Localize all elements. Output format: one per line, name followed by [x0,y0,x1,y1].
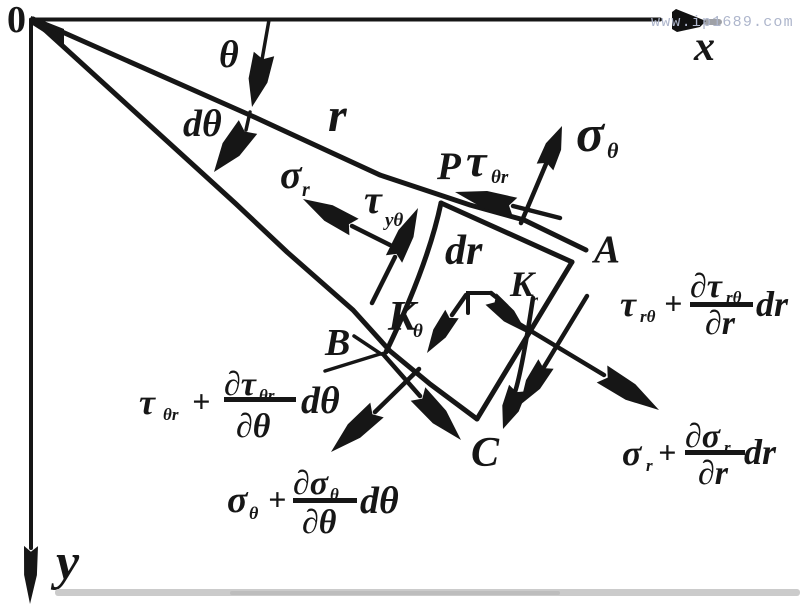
svg-text:σ: σ [227,479,249,521]
svg-text:∂r: ∂r [698,455,729,492]
svg-text:θ: θ [249,503,259,523]
svg-text:dr: dr [744,432,777,472]
svg-text:+: + [192,383,210,419]
formula tau_rtheta + dtau_rtheta/dr dr [620,268,789,342]
svg-text:B: B [324,322,350,364]
formula tau_theta-r + dtau_theta-r/dtheta dtheta [139,366,340,445]
svg-text:τ: τ [466,135,488,186]
arrow inner near C (down) [515,298,533,392]
arrow tau_theta-r+d (along BC, down-right) [383,354,420,396]
arrow K_r [491,293,496,297]
svg-text:θr: θr [491,167,509,188]
svg-text:θr: θr [259,386,275,405]
radial line OA (theta) [33,19,586,250]
svg-text:rθ: rθ [640,307,656,326]
svg-text:+: + [268,481,286,517]
svg-text:r: r [328,89,348,142]
bottom scan stripe [55,589,800,596]
leader from tau label to corner B [325,354,380,371]
svg-text:σ: σ [576,106,606,163]
element edge PB (inner arc) [386,203,441,352]
svg-text:+: + [658,434,676,470]
svg-text:dθ: dθ [360,480,399,522]
svg-text:θ: θ [219,34,239,76]
arrow sigma_r (inner face) [352,226,390,245]
svg-text:θ: θ [607,138,619,163]
svg-text:∂r: ∂r [705,305,736,342]
arrow tau_ytheta (inner face shear) [372,257,395,303]
origin ink wedge [31,16,64,45]
y-axis arrowhead [24,546,38,604]
x-axis [31,18,660,22]
arrow tau_theta-r (face PA shear) [513,206,560,218]
svg-text:x: x [693,24,715,70]
dtheta arc arrow [246,112,250,130]
svg-text:∂θ: ∂θ [236,408,271,445]
svg-text:τ: τ [620,284,637,324]
svg-text:σ: σ [280,152,303,197]
element edge AC (outer arc) [477,262,572,419]
theta arc arrow [257,20,269,88]
svg-text:dθ: dθ [301,380,340,422]
svg-text:dr: dr [445,228,483,274]
arrow sigma_r+d (outer face, down-right) [506,316,604,375]
svg-text:dθ: dθ [183,103,222,145]
svg-text:∂τ: ∂τ [690,268,723,305]
svg-text:θr: θr [163,405,179,424]
svg-text:τ: τ [364,177,383,222]
arrow K_theta [452,295,466,315]
svg-text:C: C [471,430,500,476]
element edge PA (top) [441,203,572,262]
body force bracket [468,293,491,313]
svg-text:∂θ: ∂θ [302,504,337,541]
svg-text:A: A [591,228,620,271]
x-axis arrowhead [672,9,706,32]
arrow sigma_theta+d (face BC, down-left) [375,369,419,412]
formula sigma_theta + dsigma_theta/dtheta dtheta [227,465,399,541]
svg-text:τ: τ [139,382,156,422]
svg-text:r: r [302,179,310,201]
svg-text:0: 0 [7,0,26,41]
radial line OBC (theta+dtheta) [33,19,477,419]
arrow sigma_theta (face PA normal) [521,164,546,223]
svg-text:∂σ: ∂σ [293,465,330,502]
svg-text:dr: dr [756,284,789,324]
svg-text:yθ: yθ [383,210,403,231]
svg-text:σ: σ [622,433,643,473]
svg-text:+: + [664,285,682,321]
svg-text:∂σ: ∂σ [685,418,722,455]
svg-text:www.ip1689.com: www.ip1689.com [651,14,794,31]
y-axis [29,20,33,548]
svg-text:θ: θ [413,321,423,342]
leader from B to corner [354,336,381,354]
svg-text:P: P [436,145,462,188]
arrow tau_r-theta+d (outer face, down-left) [544,296,587,367]
svg-text:r: r [646,456,653,475]
formula sigma_r + dsigma_r/dr dr [622,418,777,492]
